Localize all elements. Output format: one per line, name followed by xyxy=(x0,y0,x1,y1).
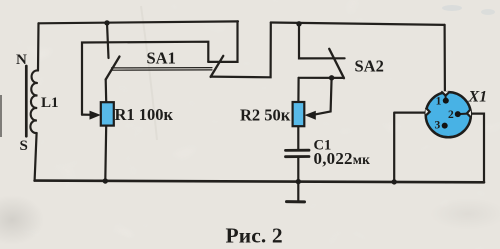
node SA2 lower junction xyxy=(329,75,334,80)
switch SA1 right blade xyxy=(211,56,224,77)
scan specks top-right xyxy=(442,5,495,15)
wire bus B to SA2 contact xyxy=(299,24,345,59)
wire bottom bus xyxy=(35,181,484,183)
pin 1 dot xyxy=(443,98,449,104)
switch SA1 left blade xyxy=(106,57,120,80)
paper crease xyxy=(141,6,157,140)
node bus A junction xyxy=(104,20,109,25)
svg-text:0,022мк: 0,022мк xyxy=(314,149,371,168)
wire to ground xyxy=(297,182,299,201)
svg-text:R2 50к: R2 50к xyxy=(240,106,291,125)
wire SA2 lower horizontal xyxy=(299,77,343,79)
wire R1 bottom to bottom bus xyxy=(104,126,107,181)
wire bus A to SA1 left contact xyxy=(107,23,109,58)
scan edge mark left xyxy=(0,95,2,137)
magnet bar of L1 xyxy=(25,66,28,136)
paper smudge bottom-left xyxy=(0,195,44,245)
pin 2 dot xyxy=(455,111,461,117)
svg-text:S: S xyxy=(20,138,28,154)
resistor R1 (potentiometer body) xyxy=(101,102,114,125)
wire left drop from top-left corner xyxy=(37,23,40,70)
wire below coil xyxy=(35,133,37,181)
wire X1 left to bottom bus xyxy=(394,113,426,182)
resistor R1 wiper arrow xyxy=(90,111,101,120)
svg-text:L1: L1 xyxy=(41,95,59,111)
node X1 left junction xyxy=(392,179,397,184)
pin 2 stub xyxy=(458,113,468,116)
svg-text:X1: X1 xyxy=(468,89,488,106)
svg-text:R1 100к: R1 100к xyxy=(115,105,174,124)
node bus B junction xyxy=(296,21,301,26)
wire step connector to bus A end xyxy=(208,21,237,62)
wire bus B corner to X1 top xyxy=(444,25,446,92)
svg-text:SA1: SA1 xyxy=(147,49,176,68)
wire SA1 right pole to bus B xyxy=(211,23,271,78)
wire R1 wiper net: up and across xyxy=(82,42,208,115)
node R1 bottom junction xyxy=(103,178,108,183)
switch SA2 blade xyxy=(329,49,344,78)
wire R2 bottom to C1 xyxy=(297,126,299,149)
capacitor C1 top plate xyxy=(286,149,310,152)
connector X1 body xyxy=(426,91,472,137)
wire top bus A xyxy=(39,21,239,23)
resistor R2 (potentiometer body) xyxy=(293,102,305,126)
wire SA1 left pole to R1 top xyxy=(105,80,108,103)
switch SA1 mechanical link line 1 xyxy=(112,67,213,69)
svg-text:1: 1 xyxy=(436,95,442,107)
svg-text:3: 3 xyxy=(435,120,441,132)
wire SA2 to R2 top xyxy=(297,78,299,102)
wire top bus B xyxy=(271,23,445,25)
capacitor C1 bottom plate xyxy=(286,155,310,158)
coil L1 xyxy=(30,70,38,133)
switch SA1 mechanical link line 2 xyxy=(112,69,213,71)
svg-text:Рис. 2: Рис. 2 xyxy=(226,223,283,247)
wire wiper to R1 arrow xyxy=(82,113,92,115)
node C1 bottom junction xyxy=(296,179,301,184)
resistor R2 wiper arrow xyxy=(305,111,316,120)
pin 3 dot xyxy=(442,123,448,129)
svg-text:2: 2 xyxy=(448,109,454,121)
ground bar xyxy=(287,200,305,203)
pin 1 stub xyxy=(445,96,447,100)
wire C1 to bottom bus xyxy=(297,157,299,182)
wire R2 wiper drop xyxy=(315,78,332,115)
wire X1 right to bottom bus xyxy=(470,114,484,183)
svg-text:N: N xyxy=(16,52,27,68)
svg-text:SA2: SA2 xyxy=(355,56,384,75)
paper smudge bottom-right xyxy=(430,198,500,230)
